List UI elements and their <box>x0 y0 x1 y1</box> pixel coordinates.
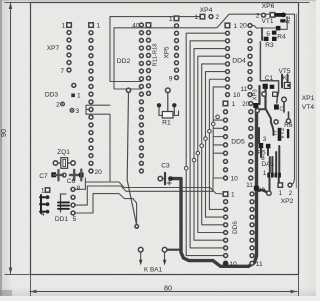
svg-text:DD4: DD4 <box>232 57 246 64</box>
svg-text:R4: R4 <box>277 34 286 41</box>
svg-text:3: 3 <box>263 136 267 143</box>
svg-text:20: 20 <box>242 101 250 108</box>
svg-text:1: 1 <box>279 190 283 197</box>
svg-text:90: 90 <box>0 129 8 137</box>
svg-text:K: K <box>283 76 287 82</box>
svg-text:1: 1 <box>231 192 235 199</box>
svg-text:8: 8 <box>77 185 81 192</box>
svg-text:VT1: VT1 <box>261 18 273 25</box>
svg-text:2: 2 <box>256 13 260 20</box>
svg-text:DD5: DD5 <box>231 138 245 145</box>
svg-text:1: 1 <box>234 23 238 30</box>
svg-text:10: 10 <box>230 261 238 268</box>
svg-text:1: 1 <box>97 23 101 30</box>
svg-text:C6: C6 <box>67 178 76 185</box>
svg-text:2: 2 <box>216 14 220 21</box>
svg-text:C: C <box>273 131 277 137</box>
svg-text:R3: R3 <box>265 42 274 49</box>
svg-text:11: 11 <box>246 182 253 189</box>
svg-text:XP7: XP7 <box>47 45 60 52</box>
svg-text:1: 1 <box>263 170 267 177</box>
svg-text:1: 1 <box>77 93 81 100</box>
svg-text:XP6: XP6 <box>262 3 275 10</box>
svg-text:DD2: DD2 <box>117 58 131 65</box>
svg-text:20: 20 <box>258 187 266 194</box>
svg-text:20: 20 <box>95 169 103 176</box>
svg-text:40: 40 <box>132 22 140 29</box>
svg-text:DD6: DD6 <box>232 221 239 234</box>
svg-text:XP3: XP3 <box>253 89 259 100</box>
svg-text:DD1: DD1 <box>55 216 69 223</box>
svg-text:XP4: XP4 <box>200 7 213 14</box>
svg-text:C3: C3 <box>161 163 170 170</box>
svg-text:R2: R2 <box>286 16 292 24</box>
svg-text:1: 1 <box>232 101 236 108</box>
svg-text:5: 5 <box>73 216 77 223</box>
svg-text:1: 1 <box>61 23 65 30</box>
svg-text:20: 20 <box>239 23 247 30</box>
svg-text:ZQ1: ZQ1 <box>57 149 70 156</box>
svg-text:9: 9 <box>169 76 173 83</box>
svg-text:VT5: VT5 <box>278 68 290 75</box>
svg-text:1: 1 <box>41 188 45 195</box>
svg-text:10: 10 <box>231 176 239 183</box>
svg-text:3: 3 <box>76 108 80 115</box>
svg-text:2: 2 <box>56 102 60 109</box>
svg-text:DD3: DD3 <box>45 92 59 99</box>
svg-text:XP2: XP2 <box>281 198 294 205</box>
svg-text:XP1: XP1 <box>302 95 315 102</box>
svg-text:DA1: DA1 <box>261 161 274 168</box>
svg-text:R1: R1 <box>162 119 171 126</box>
svg-text:XP5: XP5 <box>164 46 171 59</box>
svg-text:11: 11 <box>241 86 248 93</box>
svg-text:R11-R18: R11-R18 <box>153 44 159 67</box>
svg-text:Б: Б <box>266 31 270 37</box>
svg-text:K BA1: K BA1 <box>144 267 163 274</box>
svg-text:1: 1 <box>194 14 198 21</box>
svg-text:C1: C1 <box>265 75 274 82</box>
svg-text:1: 1 <box>169 16 173 23</box>
svg-text:VT4: VT4 <box>302 104 315 111</box>
svg-text:80: 80 <box>164 285 172 293</box>
svg-text:11: 11 <box>256 261 263 268</box>
svg-text:4: 4 <box>41 211 45 218</box>
svg-text:7: 7 <box>60 68 64 75</box>
svg-text:C7: C7 <box>39 173 48 180</box>
svg-text:10: 10 <box>233 92 241 99</box>
svg-text:C: C <box>279 107 283 113</box>
svg-text:2: 2 <box>289 190 293 197</box>
svg-text:VT2: VT2 <box>279 127 286 139</box>
